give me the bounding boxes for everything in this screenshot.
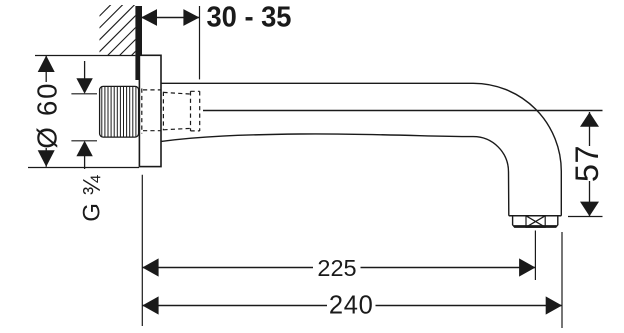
arrow right of 240	[546, 296, 562, 314]
arrow down of 57	[580, 202, 599, 217]
arrow down of D60	[38, 150, 55, 167]
wall hatching	[55, 0, 199, 60]
svg-text:30 - 35: 30 - 35	[207, 2, 292, 34]
arrow left of 240	[142, 296, 158, 314]
threaded pipe	[100, 86, 139, 137]
hidden connector dashed lines behind escutcheon	[142, 89, 161, 134]
arrow down of G3/4	[76, 78, 92, 94]
dimension G3/4 lower line	[84, 153, 86, 169]
dimension 57 bottom tick	[568, 216, 603, 218]
wall surface bar	[135, 6, 142, 80]
extension line spout outer edge for 240	[561, 232, 563, 328]
extension line wall (left) for 225/240	[141, 175, 143, 326]
svg-text:Ø 60: Ø 60	[32, 82, 63, 149]
svg-text:225: 225	[317, 255, 356, 281]
arrow left of 30-35	[141, 9, 157, 26]
dimension 240 line	[142, 305, 562, 307]
spout end bottom edge	[509, 215, 562, 217]
dimension 225 line	[142, 267, 535, 269]
escutcheon plate	[139, 55, 161, 166]
dimension 30-35 line	[141, 17, 199, 19]
thread hatch lines	[102, 87, 136, 137]
aerator ring	[513, 216, 558, 227]
hidden tapered connector dashed	[163, 92, 190, 130]
extension line top (escutcheon top / hatch bottom)	[35, 55, 135, 57]
arrow up of 57	[580, 112, 599, 127]
tick top of G3/4	[71, 93, 97, 95]
dimension 57 line	[589, 112, 591, 216]
spout top outline with outer bend	[161, 83, 561, 216]
tick bottom of G3/4	[71, 140, 97, 142]
dimension G3/4 upper line	[84, 61, 86, 82]
arrow right of 225	[519, 258, 535, 276]
spout axis / 57 extension line	[203, 110, 603, 112]
arrow right of 30-35	[183, 9, 199, 26]
dimension D60 line	[45, 56, 47, 167]
hidden nut band dashed	[191, 91, 200, 131]
extension line for 30-35	[199, 6, 201, 79]
extension line bottom (escutcheon bottom)	[28, 167, 139, 169]
arrow left of 225	[142, 258, 158, 276]
aerator insert box with X	[526, 216, 545, 227]
extension line aerator centre for 225	[534, 231, 536, 281]
svg-text:240: 240	[329, 292, 374, 320]
aerator thick bottom edge	[514, 225, 556, 227]
spout bottom outline with inner bend	[161, 134, 509, 216]
svg-text:57: 57	[569, 145, 605, 182]
arrow up of G3/4	[76, 141, 92, 157]
arrow up of D60	[38, 56, 55, 73]
svg-text:G ¾: G ¾	[79, 174, 106, 221]
